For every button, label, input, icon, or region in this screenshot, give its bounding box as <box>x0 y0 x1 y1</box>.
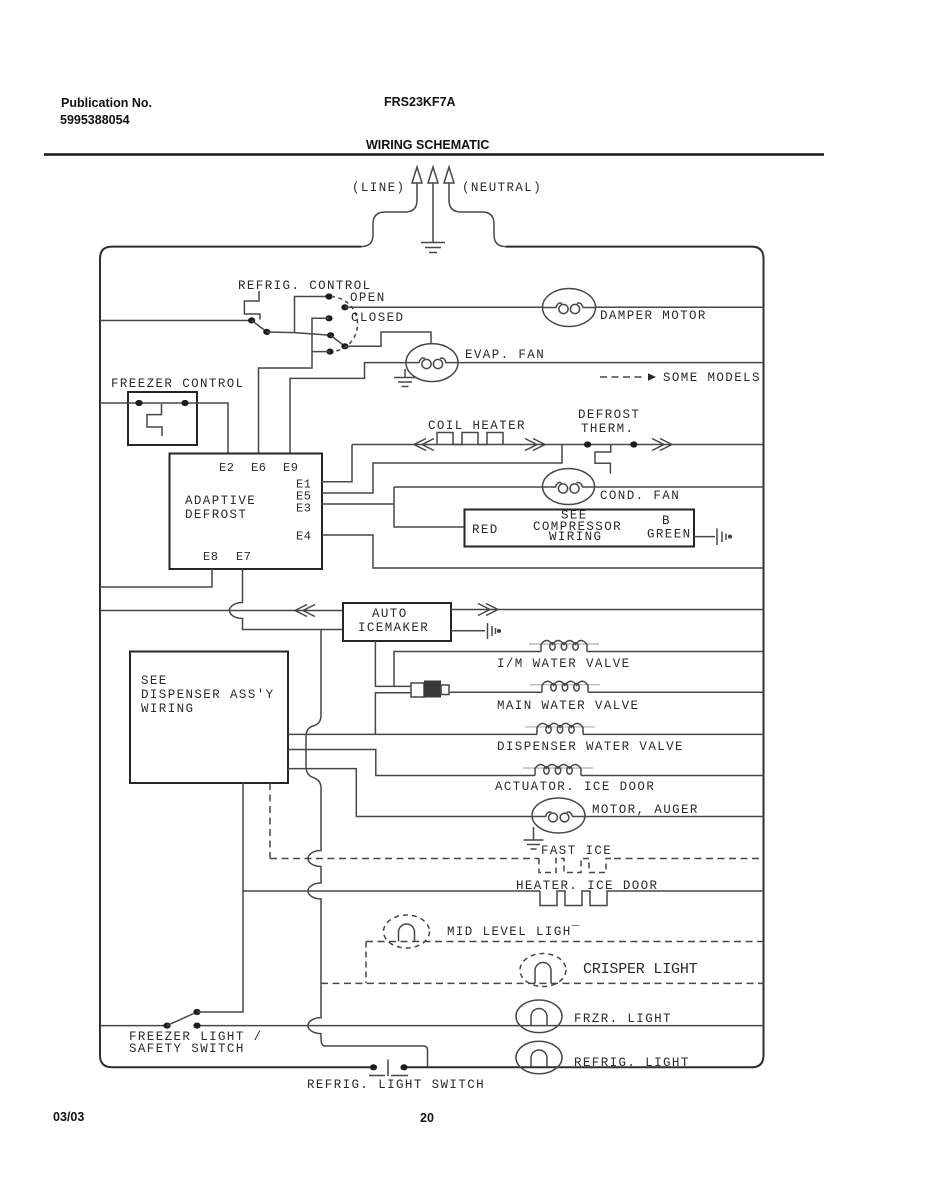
wire auger motor rail <box>288 769 764 817</box>
plug symbol icemaker <box>488 623 501 639</box>
wire valve connector lower pin to dispenser rail <box>375 693 411 735</box>
node refrig light switch contact 2 <box>400 1064 407 1070</box>
wire E8 to left bus <box>100 569 212 588</box>
node contact B open output <box>341 304 348 310</box>
node defrost therm left <box>584 441 591 447</box>
svg-text:RED: RED <box>472 523 499 537</box>
svg-text:ICEMAKER: ICEMAKER <box>358 621 429 635</box>
evap fan ground <box>394 369 416 387</box>
node refrig blade end <box>263 329 270 335</box>
line arrow L1 <box>412 167 422 200</box>
svg-text:FRS23KF7A: FRS23KF7A <box>384 95 456 109</box>
node freezer rail contact <box>193 1023 200 1029</box>
svg-text:I/M WATER VALVE: I/M WATER VALVE <box>497 657 631 671</box>
node freezer switch contact low <box>163 1023 170 1029</box>
legend dashed some models <box>600 376 646 378</box>
adaptive defrost board box <box>170 454 323 570</box>
wire mid level dashed riser <box>365 942 367 984</box>
node freezer control contact 1 <box>135 400 142 406</box>
wire E7 to icemaker feed (with hop) <box>230 569 344 630</box>
wire icemaker plug lead <box>451 630 485 632</box>
wire icemaker to valve connector upper pin <box>375 641 411 686</box>
wire E9 net to evap fan <box>290 363 406 454</box>
svg-text:MID LEVEL LIGH‾: MID LEVEL LIGH‾ <box>447 925 581 939</box>
mains ground symbol <box>421 243 445 253</box>
svg-text:03/03: 03/03 <box>53 1110 84 1124</box>
defrost thermostat staircase <box>595 445 611 474</box>
coil heater resistor <box>437 433 503 445</box>
wire mid level light dashed rail <box>366 941 764 943</box>
node contact C closed feed <box>325 315 332 321</box>
wire icemaker rail left <box>100 610 343 612</box>
node contact A open feed <box>325 293 332 299</box>
chevrons icemaker left <box>295 605 315 617</box>
refrig control switch blade 2 <box>331 335 345 346</box>
neutral arrow N1 <box>444 167 454 200</box>
chevrons right on heater rail <box>525 439 545 451</box>
svg-text:COIL HEATER: COIL HEATER <box>428 419 526 433</box>
damper motor <box>543 289 596 327</box>
svg-text:DISPENSER ASS'Y: DISPENSER ASS'Y <box>141 688 275 702</box>
svg-text:E2: E2 <box>219 461 234 475</box>
svg-text:DISPENSER WATER VALVE: DISPENSER WATER VALVE <box>497 740 684 754</box>
wire compressor green lead <box>694 536 715 538</box>
frame left and top-left <box>100 247 370 1068</box>
svg-text:(NEUTRAL): (NEUTRAL) <box>462 181 542 195</box>
refrig control switch blade 1 <box>252 320 267 332</box>
svg-text:E4: E4 <box>296 530 311 544</box>
svg-text:DEFROST: DEFROST <box>185 508 247 522</box>
svg-text:E7: E7 <box>236 550 251 564</box>
svg-text:WIRING: WIRING <box>549 530 602 544</box>
wire neutral entry S-curve <box>449 200 506 247</box>
refrig control thermostat staircase <box>244 291 260 320</box>
wire heater ice door rail <box>243 890 764 892</box>
svg-text:FRZR. LIGHT: FRZR. LIGHT <box>574 1012 672 1026</box>
ground arrow (mains earth) <box>428 167 438 242</box>
label SEE DISPENSER ASS'Y WIRING <box>141 674 275 716</box>
wire refrig control rail <box>100 320 249 322</box>
auger motor <box>532 798 585 833</box>
freezer control thermostat staircase <box>147 404 162 436</box>
refrig light switch plunger <box>369 1060 408 1077</box>
wire refrig switch common <box>267 332 331 335</box>
svg-text:FREEZER CONTROL: FREEZER CONTROL <box>111 377 245 391</box>
svg-text:CLOSED: CLOSED <box>351 311 404 325</box>
svg-text:FAST ICE: FAST ICE <box>541 844 612 858</box>
svg-text:REFRIG. LIGHT: REFRIG. LIGHT <box>574 1056 690 1070</box>
svg-text:SAFETY SWITCH: SAFETY SWITCH <box>129 1042 245 1056</box>
evap fan motor <box>406 344 458 382</box>
wire fast ice dashed rail <box>270 858 764 860</box>
svg-text:B: B <box>662 514 671 528</box>
wire freezer control feed <box>100 403 228 454</box>
wire riser to OPEN contact <box>295 297 330 333</box>
label DEFROST THERM. <box>578 408 640 436</box>
actuator coil <box>523 765 593 776</box>
wire E4 run rail <box>322 535 764 568</box>
wire line entry S-curve <box>361 200 417 247</box>
I/M water valve coil <box>529 641 599 652</box>
chevrons after defrost therm <box>652 439 672 451</box>
header publication text <box>60 96 152 127</box>
auto icemaker box <box>343 603 451 641</box>
svg-text:20: 20 <box>420 1111 434 1125</box>
wire E6 net to contact C and F <box>259 318 331 453</box>
chevrons left on heater rail <box>414 439 434 451</box>
svg-text:EVAP. FAN: EVAP. FAN <box>465 348 545 362</box>
plug symbol compressor <box>717 529 731 546</box>
wire cond fan rail <box>595 486 764 488</box>
svg-text:SEE: SEE <box>141 674 168 688</box>
svg-text:WIRING: WIRING <box>141 702 194 716</box>
svg-text:COND. FAN: COND. FAN <box>600 489 680 503</box>
dispenser water valve coil <box>525 723 595 734</box>
header rule <box>44 153 824 156</box>
crisper lamp (dashed) <box>520 954 566 987</box>
node contact D common <box>327 332 334 338</box>
svg-text:E9: E9 <box>283 461 298 475</box>
label AUTO ICEMAKER <box>358 607 429 635</box>
svg-text:ADAPTIVE: ADAPTIVE <box>185 494 256 508</box>
wire main water valve rail <box>449 691 764 693</box>
label ADAPTIVE DEFROST <box>185 494 256 522</box>
compressor wiring box <box>465 510 695 547</box>
wire dispenser water valve rail <box>288 733 764 735</box>
svg-text:MOTOR, AUGER: MOTOR, AUGER <box>592 803 699 817</box>
wire icemaker rail right <box>451 609 764 611</box>
wire damper motor rail <box>345 306 764 308</box>
freezer light lamp <box>516 1000 562 1033</box>
wire E1 to coil heater rail <box>322 445 352 482</box>
dispenser assembly box <box>130 652 288 784</box>
svg-text:Publication No.: Publication No. <box>61 96 152 110</box>
node defrost therm right <box>630 441 637 447</box>
cond fan motor <box>543 469 595 505</box>
svg-text:ACTUATOR. ICE DOOR: ACTUATOR. ICE DOOR <box>495 780 655 794</box>
wire evap fan rail <box>458 362 764 364</box>
svg-text:AUTO: AUTO <box>372 607 408 621</box>
svg-text:THERM.: THERM. <box>581 422 634 436</box>
wire fast ice dashed drop <box>269 783 271 859</box>
freezer control box <box>128 392 197 445</box>
svg-text:REFRIG. LIGHT SWITCH: REFRIG. LIGHT SWITCH <box>307 1078 485 1092</box>
label FREEZER LIGHT / SAFETY SWITCH <box>129 1030 263 1056</box>
wire freezer light rail <box>100 1025 764 1027</box>
refrig light lamp <box>516 1041 562 1074</box>
node freezer control contact 2 <box>181 400 188 406</box>
node contact E closed output <box>341 343 348 349</box>
wire main vertical bus <box>306 630 428 1068</box>
wire E3 to cond fan and compressor <box>322 487 543 527</box>
wire I/M valve rail riser <box>394 652 764 687</box>
svg-text:SOME MODELS: SOME MODELS <box>663 371 761 385</box>
svg-text:OPEN: OPEN <box>350 291 386 305</box>
freezer light switch blade <box>167 1012 197 1026</box>
fast ice heater resistor (dashed) <box>539 859 614 873</box>
wire actuator rail <box>288 750 764 776</box>
wire freezer switch to dispenser box <box>197 783 243 1012</box>
svg-text:(LINE): (LINE) <box>352 181 405 195</box>
node freezer switch contact up <box>193 1009 200 1015</box>
wire closed contact to evap fan <box>345 332 431 346</box>
mid level lamp (dashed) <box>384 915 430 948</box>
node contact F wiper <box>326 349 333 355</box>
svg-text:HEATER. ICE DOOR: HEATER. ICE DOOR <box>516 879 658 893</box>
water valve connector symbol <box>411 681 449 698</box>
node refrig light switch contact 1 <box>370 1064 377 1070</box>
svg-text:CRISPER LIGHT: CRISPER LIGHT <box>583 961 698 978</box>
svg-text:MAIN WATER VALVE: MAIN WATER VALVE <box>497 699 639 713</box>
wire coil heater rail <box>352 444 764 446</box>
svg-text:WIRING SCHEMATIC: WIRING SCHEMATIC <box>366 138 489 152</box>
frame right and top-right <box>408 247 764 1068</box>
main water valve coil <box>530 681 600 692</box>
svg-text:E8: E8 <box>203 550 218 564</box>
refrig control rotary arc (dashed) <box>331 297 358 352</box>
svg-text:E3: E3 <box>296 502 311 516</box>
svg-text:E6: E6 <box>251 461 266 475</box>
ice door heater resistor <box>540 891 615 906</box>
auger motor ground <box>524 827 544 849</box>
wire E5 to heater rail <box>322 445 562 494</box>
svg-text:5995388054: 5995388054 <box>60 113 130 127</box>
label SEE COMPRESSOR WIRING <box>533 509 622 545</box>
node refrig rail contact <box>248 317 255 323</box>
svg-text:DAMPER MOTOR: DAMPER MOTOR <box>600 309 707 323</box>
wire crisper light dashed rail <box>321 982 764 984</box>
chevrons icemaker right <box>478 604 498 616</box>
svg-text:GREEN: GREEN <box>647 528 692 542</box>
svg-text:DEFROST: DEFROST <box>578 408 640 422</box>
